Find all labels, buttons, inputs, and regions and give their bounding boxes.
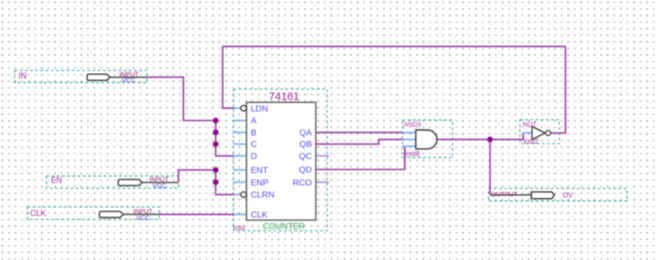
wire QB to AND3 in2 <box>316 139 403 144</box>
svg-text:A: A <box>251 116 257 126</box>
wire CLK net <box>159 213 234 215</box>
wire feedback top segment <box>223 45 566 47</box>
svg-text:QC: QC <box>299 151 312 161</box>
label NOT <box>523 122 537 129</box>
pin label QB <box>299 139 312 149</box>
pin label RCO <box>293 177 313 187</box>
wire QD to AND3 in3 <box>316 146 405 169</box>
selection box input CLK <box>27 207 159 219</box>
wire QA to AND3 in1 <box>316 131 403 133</box>
pin stub LDN <box>234 107 241 109</box>
bubble CLRN <box>241 192 247 198</box>
wire feedback LDN segment <box>223 46 235 108</box>
svg-text:OV: OV <box>563 192 573 199</box>
svg-text:IN: IN <box>19 72 27 81</box>
svg-text:inst2: inst2 <box>524 139 539 146</box>
svg-text:RCO: RCO <box>293 177 313 187</box>
svg-text:COUNTER: COUNTER <box>263 221 305 231</box>
pin stub B <box>234 131 247 133</box>
pin label QD <box>299 165 312 175</box>
pin label ENP <box>251 177 269 187</box>
selection box not gate inst2 <box>520 120 559 144</box>
svg-text:VCC: VCC <box>136 215 150 222</box>
output pin OV symbol <box>490 191 554 198</box>
counter U1 74161 body <box>247 102 316 220</box>
svg-text:QB: QB <box>299 139 312 149</box>
label inst <box>233 223 246 232</box>
label inst2 <box>524 139 539 146</box>
label AND3 <box>404 121 422 128</box>
label COUNTER <box>263 221 305 231</box>
svg-text:inst8: inst8 <box>405 151 420 158</box>
and gate inst8 AND3 body <box>416 130 437 149</box>
svg-text:QA: QA <box>299 127 312 137</box>
svg-text:AND3: AND3 <box>404 121 422 128</box>
svg-text:NOT: NOT <box>523 122 537 129</box>
wire IN net vertical A to D <box>216 121 235 156</box>
svg-text:D: D <box>251 151 257 161</box>
wire EN net up to ENT <box>178 170 215 183</box>
input pin CLK symbol <box>100 209 160 223</box>
junction node AND3 output <box>487 137 493 143</box>
svg-text:74161: 74161 <box>269 91 300 103</box>
pin label C <box>251 139 257 149</box>
svg-text:inst: inst <box>233 223 246 232</box>
junction node ENT <box>213 167 219 173</box>
label inst8 <box>405 151 420 158</box>
svg-text:LDN: LDN <box>251 103 268 113</box>
svg-text:ENP: ENP <box>251 177 269 187</box>
pin stub AND3 in3 <box>402 145 416 147</box>
pin label A <box>251 116 257 126</box>
pin stub ENP <box>234 181 247 183</box>
svg-text:C: C <box>251 139 257 149</box>
svg-text:CLK: CLK <box>30 209 46 218</box>
pin stub AND3 in1 <box>402 132 416 134</box>
svg-text:EN: EN <box>51 176 62 185</box>
wire junction to OUTPUT pin vertical <box>489 139 491 195</box>
pin label ENT <box>251 165 269 175</box>
selection box and gate inst8 <box>402 120 452 158</box>
pin label CLK <box>251 209 268 219</box>
selection box counter U1 <box>234 89 328 231</box>
svg-text:B: B <box>251 127 257 137</box>
svg-text:VCC: VCC <box>122 78 136 85</box>
pin stub AND3 in2 <box>402 138 416 140</box>
pin stub QC unconnected <box>317 155 330 157</box>
junction node A <box>213 118 219 124</box>
wire EN net vertical ENT to CLRN <box>216 170 235 195</box>
selection box input EN <box>46 176 178 188</box>
svg-text:CLRN: CLRN <box>251 190 275 200</box>
input pin IN symbol <box>87 71 146 84</box>
pin label QC <box>299 151 312 161</box>
pin label QA <box>299 127 312 137</box>
svg-text:ENT: ENT <box>251 165 269 175</box>
label OV <box>563 192 573 199</box>
junction node C <box>213 141 219 147</box>
wire IN net horizontal and down to A <box>147 77 216 120</box>
selection box input IN <box>15 70 147 82</box>
pin label LDN <box>251 103 268 113</box>
svg-text:VCC: VCC <box>153 183 167 190</box>
label IN <box>19 72 27 81</box>
wire AND3 output to NOT input <box>437 133 523 140</box>
svg-text:CLK: CLK <box>251 209 268 219</box>
wire feedback right vertical segment <box>551 46 566 133</box>
pin stub D <box>234 155 247 157</box>
pin stub C <box>234 143 247 145</box>
svg-text:QD: QD <box>299 165 312 175</box>
bubble LDN <box>241 105 247 111</box>
label CLK <box>30 209 46 218</box>
pin label D <box>251 151 257 161</box>
pin stub CLK <box>234 213 247 215</box>
selection box output OV <box>489 189 628 201</box>
label EN <box>51 176 62 185</box>
svg-text:OUTPUT: OUTPUT <box>491 191 517 198</box>
pin stub A <box>234 120 247 122</box>
pin label CLRN <box>251 190 275 200</box>
pin stub RCO unconnected <box>317 181 330 183</box>
pin stub CLRN <box>234 194 241 196</box>
junction node ENP <box>213 179 219 185</box>
pin stub NOT input <box>523 132 532 134</box>
pin label B <box>251 127 257 137</box>
counter title 74161 <box>269 91 300 103</box>
pin stub ENT <box>234 169 247 171</box>
not gate inst2 body <box>532 127 551 140</box>
junction node B <box>213 129 219 135</box>
input pin EN symbol <box>118 177 178 191</box>
